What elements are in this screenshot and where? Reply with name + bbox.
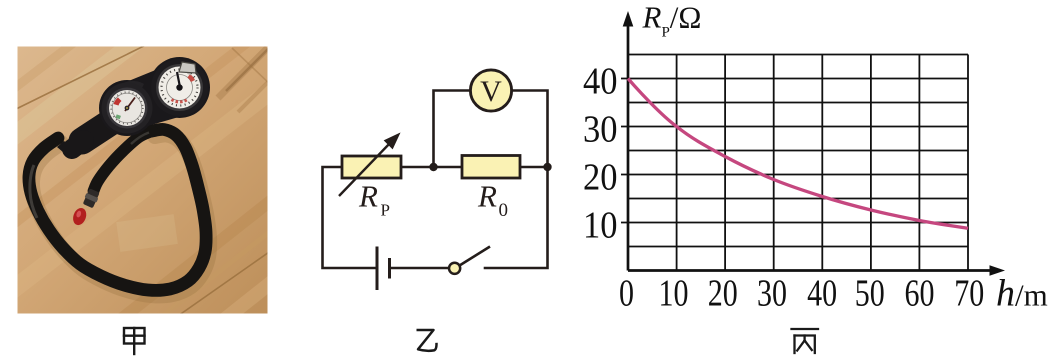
wire: node A to node B through R_0 row xyxy=(401,166,548,169)
caption 甲 (drawn strokes) xyxy=(124,328,145,354)
curve R_P(h) xyxy=(628,79,968,229)
resistor R_0 xyxy=(462,156,520,179)
right gauge (depth gauge) xyxy=(151,59,208,116)
svg-text:10: 10 xyxy=(659,273,689,315)
battery cell: long plate xyxy=(376,247,379,291)
svg-text:RP/Ω: RP/Ω xyxy=(642,0,702,41)
wood table background xyxy=(18,47,268,314)
svg-text:R: R xyxy=(358,179,378,214)
y-axis labels xyxy=(583,61,618,247)
wire: voltmeter branch (node A up, across, down to node B) xyxy=(434,91,548,168)
x-axis xyxy=(628,269,994,272)
grid xyxy=(628,55,968,271)
hose shadow xyxy=(32,134,209,295)
red protector cap on hose end xyxy=(71,206,89,227)
svg-text:40: 40 xyxy=(583,61,618,103)
svg-text:h/m: h/m xyxy=(996,273,1048,315)
voltmeter U1 xyxy=(470,70,511,111)
svg-text:20: 20 xyxy=(583,157,618,199)
svg-text:30: 30 xyxy=(583,109,618,151)
svg-text:V: V xyxy=(480,75,502,108)
wood grain streaks xyxy=(0,0,380,362)
faint tag under hose xyxy=(116,214,178,252)
hose sheen xyxy=(30,165,37,218)
console housing around the two gauges xyxy=(99,80,155,136)
caption 丙 (drawn strokes) xyxy=(792,329,819,353)
node A (junction dot between R_P and R_0) xyxy=(429,163,437,171)
node B (junction dot right of R_0) xyxy=(543,163,551,171)
switch S: pivot circle xyxy=(449,263,460,274)
x-axis labels xyxy=(619,273,984,315)
left gauge (pressure gauge) xyxy=(102,83,153,134)
switch S: lever arm xyxy=(460,247,491,266)
console boot (black rubber holder) xyxy=(82,122,111,141)
svg-text:0: 0 xyxy=(619,273,634,315)
circuit schematic (figure 乙) xyxy=(323,91,548,269)
svg-text:20: 20 xyxy=(708,273,738,315)
hose end fitting xyxy=(82,188,101,209)
svg-text:P: P xyxy=(381,201,390,220)
white tab on top of right gauge xyxy=(179,62,196,73)
arrow across R_P xyxy=(339,134,400,197)
darker grain streaks top-right corner xyxy=(218,48,268,98)
svg-text:40: 40 xyxy=(807,273,837,315)
rubber hose loop xyxy=(29,129,206,290)
wire: left branch from R_P down and along bottom to battery xyxy=(323,167,376,268)
svg-text:70: 70 xyxy=(954,273,984,315)
battery cell: short plate xyxy=(388,258,391,279)
photo of diving pressure-gauge console (figure 甲) xyxy=(0,0,380,362)
y-axis tick stubs xyxy=(621,79,628,223)
svg-text:30: 30 xyxy=(757,273,787,315)
svg-text:10: 10 xyxy=(583,205,618,247)
svg-text:60: 60 xyxy=(905,273,935,315)
wire: switch fixed contact to right bottom corner and up to node B xyxy=(485,167,548,268)
svg-text:50: 50 xyxy=(855,273,885,315)
wood plank seams xyxy=(10,42,272,318)
variable resistor R_P xyxy=(342,156,401,178)
caption 乙 (drawn strokes) xyxy=(417,330,437,351)
svg-text:0: 0 xyxy=(499,200,509,221)
svg-text:R: R xyxy=(477,179,497,214)
hose tail going to capped end xyxy=(94,131,153,191)
y-axis xyxy=(627,22,630,271)
wire: battery to switch pivot xyxy=(391,267,450,270)
